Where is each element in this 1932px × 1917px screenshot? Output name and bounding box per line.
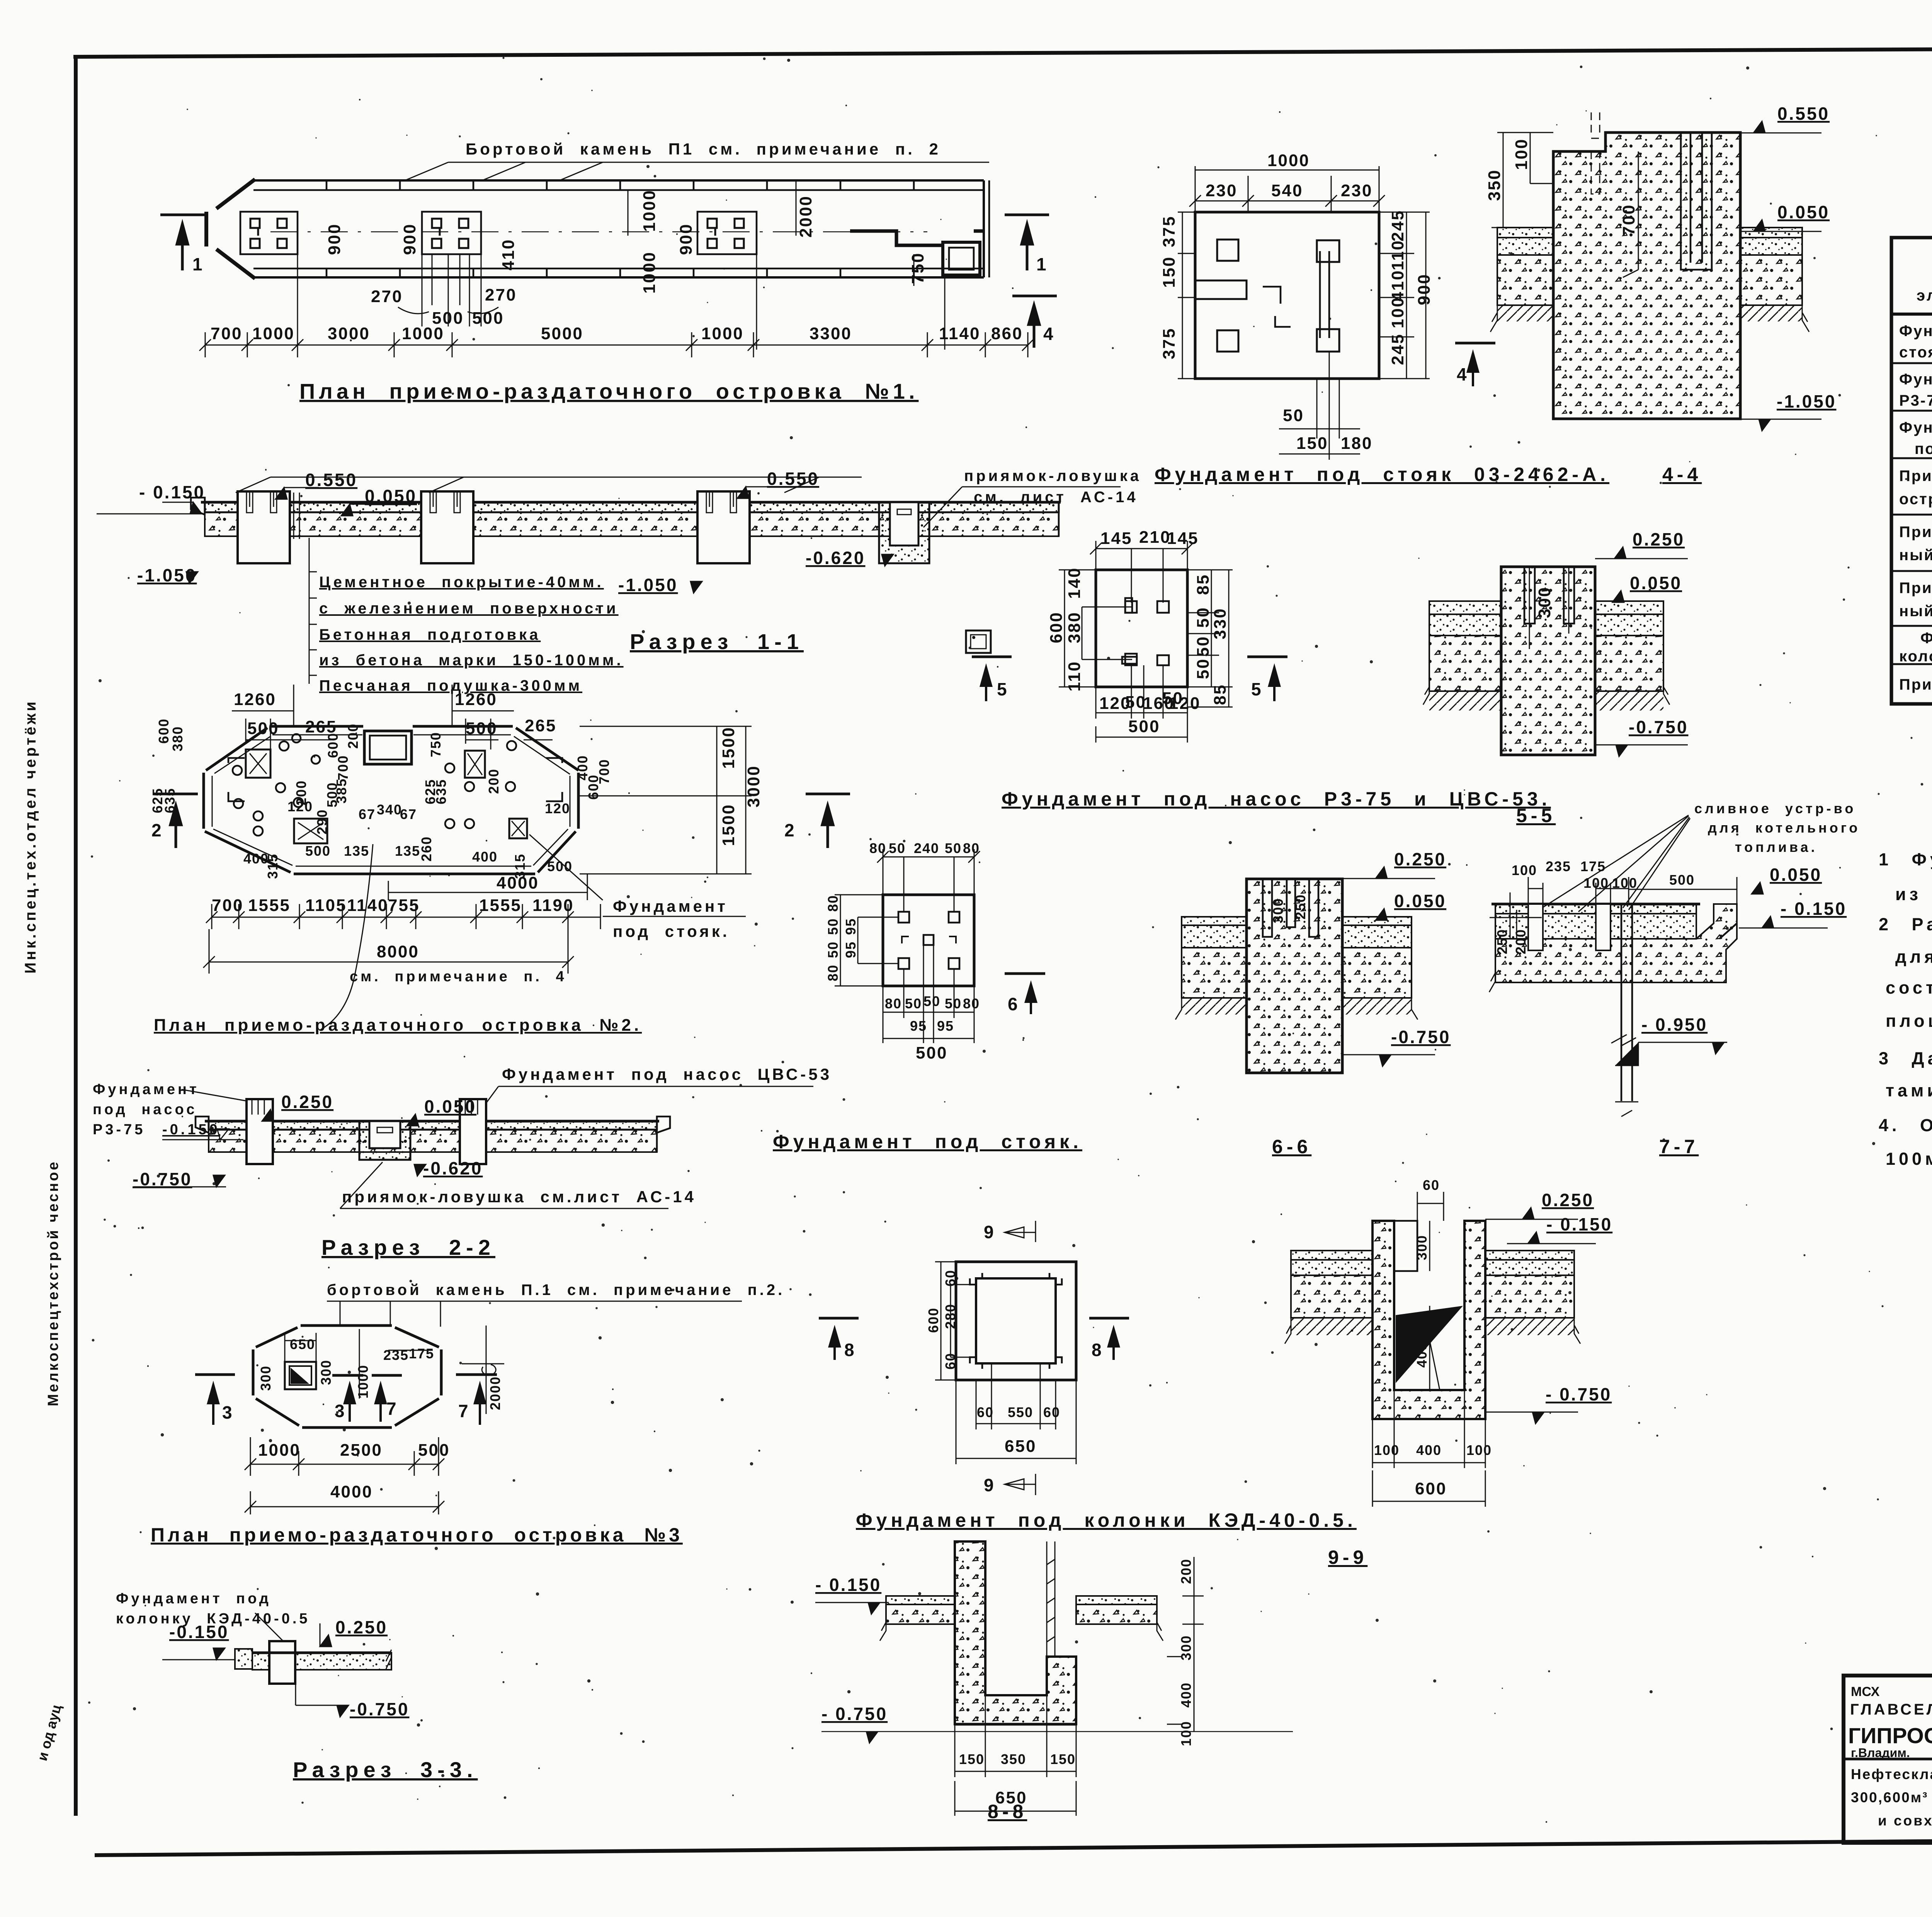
svg-text:4-4: 4-4 — [1662, 464, 1702, 485]
svg-text:50: 50 — [905, 996, 922, 1011]
foundation F3 — [697, 212, 757, 254]
bottom dims — [1279, 352, 1360, 460]
svg-text:План приемо-раздаточного остр: План приемо-раздаточного островка №2. — [154, 1016, 642, 1035]
svg-text:1500: 1500 — [719, 726, 738, 769]
svg-text:700: 700 — [1619, 204, 1638, 236]
section mark 3 inner — [332, 1374, 363, 1377]
left slab — [1291, 1251, 1372, 1260]
nasos bottom dims — [1096, 665, 1187, 743]
svg-text:6: 6 — [1008, 994, 1019, 1014]
svg-text:210: 210 — [1139, 528, 1171, 547]
svg-text:500: 500 — [916, 1043, 947, 1062]
svg-text:150: 150 — [1160, 256, 1179, 288]
svg-text:г.Владим.: г.Владим. — [1851, 1746, 1910, 1760]
section mark 3 left — [195, 1373, 235, 1376]
priyamok leader island1 — [923, 467, 1141, 653]
8000 dim — [203, 929, 574, 974]
top dims — [1189, 166, 1385, 212]
svg-text:7: 7 — [386, 1399, 398, 1419]
svg-text:Бетонная подготовка: Бетонная подготовка — [319, 626, 541, 643]
svg-text:3000: 3000 — [328, 324, 370, 343]
svg-text:под стояк.: под стояк. — [1915, 440, 1932, 457]
section 8-8 bottom — [815, 1541, 1293, 1822]
svg-text:200: 200 — [1178, 1558, 1194, 1584]
svg-text:0.250: 0.250 — [335, 1617, 388, 1637]
razrez 2-2 — [93, 1065, 832, 1259]
svg-text:60: 60 — [942, 1353, 958, 1370]
svg-text:235: 235 — [383, 1347, 409, 1363]
pedestal 2-2 b — [460, 1099, 486, 1164]
svg-text:4000: 4000 — [497, 874, 539, 892]
right step edge — [1719, 923, 1737, 939]
elevations 4-4 — [1740, 104, 1836, 431]
svg-text:50: 50 — [1283, 406, 1304, 425]
svg-text:410: 410 — [499, 239, 518, 270]
svg-text:2500: 2500 — [340, 1441, 383, 1460]
svg-text:- 0.750: - 0.750 — [821, 1704, 888, 1724]
svg-text:Разрез 3-3.: Разрез 3-3. — [293, 1757, 478, 1782]
svg-text:280: 280 — [942, 1303, 958, 1329]
svg-text:9-9: 9-9 — [1328, 1547, 1367, 1568]
svg-text:8: 8 — [1092, 1340, 1103, 1360]
svg-text:Фундамент под: Фундамент под — [116, 1591, 271, 1607]
svg-text:Мелкоспецтехстрой чесное: Мелкоспецтехстрой чесное — [45, 1160, 61, 1406]
section mark 2 right — [784, 794, 850, 848]
pit trap plan island 2 — [364, 731, 412, 764]
left dims — [1178, 212, 1195, 379]
svg-text:135: 135 — [395, 843, 420, 859]
svg-text:4: 4 — [1457, 364, 1468, 384]
svg-text:600: 600 — [156, 718, 172, 744]
svg-text:Р3-75 и ЦВС-53.: Р3-75 и ЦВС-53. — [1899, 392, 1932, 409]
pit 2-2 — [359, 1121, 410, 1160]
svg-text:350: 350 — [1001, 1751, 1026, 1767]
svg-text:МСХ: МСХ — [1851, 1684, 1880, 1699]
svg-text:под стояк.: под стояк. — [613, 922, 730, 940]
svg-text:-0.750: -0.750 — [1391, 1027, 1451, 1047]
svg-text:- 0.150: - 0.150 — [139, 482, 205, 502]
svg-text:колонку КЭД-40-0.5: колонку КЭД-40-0.5 — [1899, 648, 1932, 665]
svg-text:1190: 1190 — [532, 896, 574, 915]
svg-text:0.050: 0.050 — [365, 486, 417, 506]
svg-text:3300: 3300 — [810, 324, 852, 343]
svg-text:755: 755 — [388, 896, 420, 915]
svg-text:95: 95 — [937, 1018, 954, 1034]
svg-text:8000: 8000 — [377, 942, 419, 961]
svg-text:50: 50 — [825, 941, 841, 958]
svg-text:180: 180 — [1341, 434, 1372, 453]
pier 6-6 — [1247, 879, 1342, 1073]
svg-text:135: 135 — [344, 843, 369, 859]
well circles — [233, 734, 516, 836]
svg-text:700: 700 — [596, 759, 612, 784]
svg-text:9: 9 — [984, 1222, 995, 1242]
svg-text:1: 1 — [1036, 254, 1048, 274]
svg-text:-0.750: -0.750 — [1629, 717, 1688, 737]
svg-text:0.050: 0.050 — [1630, 573, 1682, 593]
svg-text:бортовой камень П.1 см. прим: бортовой камень П.1 см. примечание п.2. — [327, 1281, 785, 1298]
section mark 5 left — [972, 656, 1012, 658]
svg-text:50: 50 — [945, 996, 962, 1011]
svg-text:400: 400 — [1178, 1682, 1194, 1708]
svg-text:380: 380 — [170, 726, 185, 751]
svg-text:245: 245 — [1388, 333, 1407, 365]
section mark 8 right — [1089, 1317, 1129, 1320]
section mark 4 — [1455, 342, 1495, 345]
svg-text:265: 265 — [525, 716, 556, 735]
svg-text:60: 60 — [977, 1404, 994, 1420]
svg-text:100мм, всеостальные-выполнить: 100мм, всеостальные-выполнить ф 150 мм. … — [1886, 1149, 1932, 1169]
svg-text:80: 80 — [825, 964, 841, 981]
svg-text:80: 80 — [963, 840, 980, 856]
section 7-7 — [1489, 800, 1860, 1117]
svg-text:150: 150 — [1296, 434, 1328, 453]
svg-text:План приемо-раздаточного ос: План приемо-раздаточного островка №1. — [299, 379, 918, 403]
svg-text:стояк 03-2462-А.: стояк 03-2462-А. — [1899, 344, 1932, 361]
svg-text:100: 100 — [1178, 1721, 1194, 1746]
plan fundament pod stoyak 03-2462-A — [1155, 151, 1702, 485]
elevations 5-5 — [1595, 529, 1688, 756]
svg-text:235: 235 — [1546, 858, 1571, 874]
razrez 2-2 slab — [196, 1117, 670, 1152]
centre axis — [270, 231, 927, 232]
svg-text:50: 50 — [1194, 636, 1213, 657]
svg-text:0.050: 0.050 — [1394, 891, 1446, 911]
svg-text:2 Расход бортовых камней П: 2 Расход бортовых камней П1 (ГОСТ 6665-6… — [1879, 914, 1932, 934]
svg-text:385: 385 — [333, 778, 349, 804]
svg-text:-0.750: -0.750 — [350, 1699, 409, 1719]
dims 8-8 — [955, 1557, 1204, 1816]
plan 1 dim chain — [199, 332, 1034, 357]
svg-text:2: 2 — [151, 820, 163, 840]
svg-text:- 0.150: - 0.150 — [1781, 899, 1847, 919]
svg-text:Фундамент под насос ЦВС-53: Фундамент под насос ЦВС-53 — [502, 1065, 832, 1083]
left leader labels — [93, 1081, 220, 1138]
notes block — [1879, 809, 1932, 1169]
svg-text:550: 550 — [1008, 1404, 1033, 1420]
slab 7-7 — [1495, 904, 1696, 914]
svg-text:50: 50 — [1194, 658, 1213, 679]
svg-text:6-6: 6-6 — [1272, 1136, 1311, 1157]
svg-text:150: 150 — [1050, 1751, 1076, 1767]
svg-text:топлива.: топлива. — [1735, 839, 1818, 855]
svg-text:Приямок-ловушка.: Приямок-ловушка. — [1899, 676, 1932, 693]
svg-text:500: 500 — [547, 858, 573, 874]
elevations 8-8 — [815, 1575, 1293, 1743]
svg-text:250: 250 — [1293, 894, 1308, 919]
svg-text:5000: 5000 — [541, 324, 583, 343]
svg-text:1: 1 — [192, 254, 204, 274]
svg-text:750: 750 — [908, 252, 927, 284]
svg-text:из бетона марки 150-100мм.: из бетона марки 150-100мм. — [319, 652, 624, 669]
svg-text:500: 500 — [1669, 872, 1695, 888]
svg-text:50: 50 — [889, 840, 906, 856]
svg-text:95: 95 — [843, 941, 859, 958]
left layers — [1429, 601, 1501, 614]
svg-text:1000: 1000 — [640, 189, 659, 232]
svg-text:95: 95 — [843, 918, 859, 935]
section mark 7 inner — [372, 1374, 402, 1377]
svg-text:900: 900 — [325, 223, 344, 255]
svg-text:175: 175 — [409, 1346, 434, 1361]
svg-text:900: 900 — [1415, 274, 1434, 305]
svg-text:4. Обозначенные колодцы выпо: 4. Обозначенные колодцы выполнить ф 50мм… — [1879, 1115, 1932, 1135]
svg-text:140: 140 — [1065, 567, 1084, 599]
svg-text:2000: 2000 — [487, 1376, 503, 1410]
svg-text:0.050: 0.050 — [1777, 202, 1830, 222]
pits 7-7 — [1528, 904, 1543, 950]
svg-text:Приемо-раздаточ-: Приемо-раздаточ- — [1899, 580, 1932, 597]
svg-text:100: 100 — [1612, 875, 1638, 891]
svg-text:приямок-ловушка см.лист АС-14: приямок-ловушка см.лист АС-14 — [342, 1188, 696, 1206]
svg-text:Песчаная подушка-300мм: Песчаная подушка-300мм — [319, 677, 582, 694]
left margin rotated annotations — [22, 699, 64, 1762]
svg-text:0.050: 0.050 — [424, 1096, 476, 1117]
svg-text:2000: 2000 — [796, 195, 815, 238]
svg-text:400: 400 — [575, 755, 590, 780]
section 6-6 — [1175, 849, 1451, 1073]
svg-text:67: 67 — [359, 806, 376, 822]
svg-text:250: 250 — [1494, 929, 1510, 954]
svg-text:375: 375 — [1160, 328, 1179, 359]
svg-text:приямок-ловушка: приямок-ловушка — [964, 467, 1141, 484]
svg-text:План приемо-раздаточного ос: План приемо-раздаточного островка №3 — [151, 1524, 683, 1546]
left lower foundation rect — [294, 819, 327, 843]
svg-text:ный островок 2: ный островок 2 — [1899, 547, 1932, 564]
svg-text:400: 400 — [1416, 1442, 1442, 1458]
svg-text:100: 100 — [1466, 1442, 1492, 1458]
elevations 3-3 — [162, 1617, 409, 1719]
section mark 5 right — [1247, 656, 1287, 658]
svg-text:3: 3 — [335, 1401, 346, 1421]
svg-text:Разрез 1-1: Разрез 1-1 — [630, 629, 804, 654]
svg-text:составляет - 36 шт; для площ: составляет - 36 шт; для площадки 2 - 17 … — [1886, 978, 1932, 998]
pit trap in plan — [850, 231, 984, 275]
dims small stoyak plan — [877, 849, 980, 912]
elevation marks razrez 1-1 — [97, 469, 893, 595]
svg-text:175: 175 — [1580, 858, 1606, 874]
svg-text:110: 110 — [1388, 240, 1407, 270]
svg-text:ГЛАВСЕЛЬСТРОЙПРОЕКТ: ГЛАВСЕЛЬСТРОЙПРОЕКТ — [1850, 1700, 1932, 1718]
main block 4-4 — [1553, 133, 1740, 419]
svg-text:0.250: 0.250 — [1542, 1190, 1594, 1210]
svg-text:1000: 1000 — [1267, 151, 1310, 170]
svg-text:700: 700 — [211, 324, 242, 343]
section mark 6 — [1005, 972, 1045, 975]
svg-text:площадки 3 - 10 шт.: площадки 3 - 10 шт. — [1886, 1011, 1932, 1031]
table header — [1917, 257, 1932, 312]
black wedge — [1396, 1306, 1463, 1383]
dims 7-7 — [1490, 877, 1737, 939]
svg-text:Фундамент под: Фундамент под — [1920, 630, 1932, 647]
svg-text:110: 110 — [1065, 661, 1084, 692]
svg-text:145: 145 — [1167, 529, 1199, 548]
svg-text:245: 245 — [1388, 210, 1407, 241]
svg-text:50: 50 — [1194, 607, 1213, 628]
plan fundament pod stoyak small — [773, 840, 1699, 1157]
svg-text:3 Данный лист смотреть с: 3 Данный лист смотреть совместно с лис- — [1879, 1049, 1932, 1068]
svg-text:900: 900 — [400, 223, 419, 255]
central channel — [1320, 251, 1329, 338]
svg-text:300: 300 — [1414, 1235, 1430, 1260]
razrez 3-3 body — [235, 1649, 252, 1669]
svg-text:5: 5 — [997, 679, 1009, 699]
right dims — [1379, 212, 1430, 379]
svg-text:Разрез 2-2: Разрез 2-2 — [321, 1235, 495, 1259]
svg-text:Фундамент под стояк 03-2462-: Фундамент под стояк 03-2462-А. — [1155, 464, 1609, 485]
svg-text:650: 650 — [1005, 1437, 1036, 1456]
svg-text:1 Фундаменты под оборудован: 1 Фундаменты под оборудование выполнить — [1879, 850, 1932, 869]
svg-text:60: 60 — [1423, 1177, 1440, 1193]
svg-text:-0.750: -0.750 — [133, 1169, 192, 1189]
svg-text:0.250: 0.250 — [281, 1092, 333, 1112]
svg-text:80: 80 — [825, 895, 841, 912]
section 4-4 — [1455, 104, 1836, 431]
svg-text:100: 100 — [1512, 862, 1537, 878]
svg-text:1000: 1000 — [402, 324, 444, 343]
svg-text:из бетона марки-150.: из бетона марки-150. — [1895, 884, 1932, 904]
dims 9-9 — [1417, 1192, 1444, 1390]
svg-text:Фундамент под насос: Фундамент под насос — [1899, 371, 1932, 388]
pedestal P2 — [421, 491, 473, 563]
right outside dims island2 — [719, 726, 763, 846]
svg-text:Фундамент под насос Р3-75 и: Фундамент под насос Р3-75 и ЦВС-53. — [1002, 788, 1551, 810]
island3 dim chain — [245, 1437, 444, 1476]
left foundation rect — [246, 749, 270, 778]
right layers — [1595, 601, 1663, 614]
plan island 3 — [151, 1281, 785, 1546]
svg-text:700: 700 — [212, 896, 243, 915]
svg-text:- 0.750: - 0.750 — [1546, 1384, 1612, 1404]
section mark 2 left — [151, 794, 198, 848]
title block — [1844, 1676, 1932, 1871]
svg-text:5-5: 5-5 — [1516, 805, 1556, 826]
svg-text:элемента.: элемента. — [1917, 287, 1932, 304]
svg-text:-0.620: -0.620 — [806, 548, 865, 568]
section 9-9 — [1285, 1177, 1612, 1507]
svg-text:см. примечание п. 4: см. примечание п. 4 — [350, 969, 567, 985]
svg-text:1140: 1140 — [939, 324, 980, 343]
plan fundament KED — [819, 1221, 1367, 1568]
octagon island 3 — [253, 1326, 441, 1428]
svg-text:- 0.950: - 0.950 — [1641, 1015, 1708, 1035]
island strip outline — [206, 179, 989, 279]
svg-text:50: 50 — [825, 918, 841, 935]
svg-text:-1.050: -1.050 — [618, 575, 678, 595]
svg-text:900: 900 — [677, 223, 696, 255]
svg-text:290: 290 — [314, 809, 330, 834]
svg-text:330: 330 — [1211, 608, 1230, 639]
svg-text:Фундамент: Фундамент — [613, 897, 728, 915]
svg-text:- 0.150: - 0.150 — [815, 1575, 881, 1595]
svg-text:500: 500 — [418, 1441, 450, 1460]
right lower foundation square — [509, 819, 527, 838]
svg-text:700: 700 — [335, 755, 351, 780]
pedestal P3 — [697, 491, 750, 563]
svg-text:1555: 1555 — [479, 896, 522, 915]
elevations 2-2 — [133, 1092, 483, 1189]
svg-text:1000: 1000 — [258, 1441, 301, 1460]
island2 dim chain — [206, 904, 600, 929]
L-shaped channel 8-8 — [955, 1541, 1076, 1724]
svg-text:100: 100 — [1388, 297, 1407, 328]
nasos left dims — [1059, 570, 1132, 687]
section mark 4 right — [1012, 296, 1057, 348]
left dims 4-4 — [1492, 133, 1553, 228]
svg-text:8: 8 — [844, 1340, 856, 1360]
svg-text:300: 300 — [1270, 898, 1286, 923]
svg-text:300: 300 — [1535, 586, 1554, 618]
slab band — [191, 498, 1061, 536]
scattered dim labels island2 — [150, 718, 612, 879]
svg-text:650: 650 — [290, 1336, 315, 1352]
svg-text:3: 3 — [222, 1402, 234, 1422]
svg-text:0.550: 0.550 — [1777, 104, 1830, 124]
svg-text:200: 200 — [345, 723, 361, 749]
svg-text:Фундамент под стояк.: Фундамент под стояк. — [773, 1131, 1082, 1152]
inner left band — [1195, 280, 1247, 299]
svg-text:Р3-75: Р3-75 — [93, 1122, 145, 1138]
svg-text:300: 300 — [318, 1360, 334, 1385]
axis ticks on slab — [294, 493, 299, 539]
drain pipe — [1621, 904, 1632, 1101]
table grid — [1891, 238, 1932, 704]
plan fundament pod nasos — [972, 528, 1556, 826]
svg-text:3000: 3000 — [744, 765, 763, 807]
svg-text:300: 300 — [1178, 1635, 1194, 1660]
svg-text:67: 67 — [400, 806, 417, 822]
plan 1 inner dims — [325, 189, 927, 328]
nasos top dims — [1090, 541, 1193, 603]
elevations 7-7 — [1615, 865, 1847, 1066]
svg-text:300: 300 — [258, 1365, 274, 1391]
right floor slab — [1740, 228, 1802, 238]
svg-text:1000: 1000 — [355, 1365, 371, 1399]
concrete consumption table — [1891, 214, 1932, 704]
right slab — [1485, 1251, 1574, 1260]
section mark 8 left — [819, 1317, 859, 1320]
svg-text:5: 5 — [1251, 679, 1263, 699]
svg-text:860: 860 — [991, 324, 1023, 343]
section mark 7 right — [456, 1373, 497, 1376]
svg-text:400: 400 — [1414, 1342, 1430, 1368]
svg-text:1260: 1260 — [455, 690, 497, 709]
corner brackets — [228, 758, 245, 801]
svg-text:315: 315 — [265, 853, 281, 879]
svg-text:0.250: 0.250 — [1633, 529, 1685, 549]
svg-text:50: 50 — [945, 840, 962, 856]
svg-text:с железнением поверхности: с железнением поверхности — [319, 600, 619, 617]
svg-text:120: 120 — [545, 800, 570, 816]
svg-text:Цементное покрытие-40мм.: Цементное покрытие-40мм. — [319, 574, 604, 591]
plan island 2 — [150, 685, 850, 1035]
svg-text:1000: 1000 — [252, 324, 295, 343]
svg-text:270: 270 — [485, 286, 517, 304]
svg-text:100: 100 — [1374, 1442, 1400, 1458]
svg-text:230: 230 — [1341, 181, 1372, 200]
svg-text:635: 635 — [433, 779, 449, 804]
svg-text:600: 600 — [1047, 612, 1066, 643]
section 5-5 — [1423, 529, 1688, 756]
svg-text:200: 200 — [1513, 929, 1529, 954]
svg-text:1555: 1555 — [248, 896, 291, 915]
svg-text:7-7: 7-7 — [1659, 1136, 1699, 1157]
pit trap in section — [879, 502, 929, 563]
svg-text:300,600м³ для колхозов: 300,600м³ для колхозов — [1851, 1790, 1932, 1805]
svg-text:600: 600 — [925, 1307, 941, 1333]
svg-text:380: 380 — [1065, 612, 1084, 643]
elevations 9-9 — [1485, 1190, 1612, 1424]
